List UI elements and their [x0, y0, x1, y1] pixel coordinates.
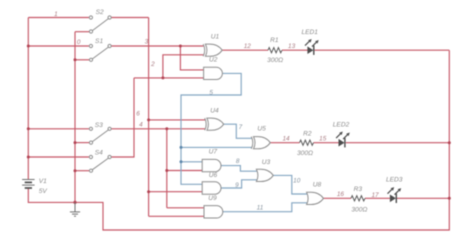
svg-text:U3: U3 [262, 159, 271, 166]
switch S1 [89, 44, 111, 61]
svg-text:V1: V1 [39, 178, 47, 185]
wire net2 branch to U6 input B [149, 191, 203, 193]
resistor R3 [351, 196, 365, 201]
svg-text:16: 16 [337, 191, 345, 198]
wire net4 vertical [166, 129, 168, 208]
gate U5 xor [251, 137, 270, 149]
wire S1 lower stub [75, 59, 90, 61]
resistor R2 [300, 140, 314, 145]
svg-text:17: 17 [371, 192, 379, 199]
wire S2 lower stub [75, 31, 89, 33]
gate U7 and [202, 159, 221, 171]
gate U1 xor [203, 44, 222, 56]
wire rail to S1 [28, 45, 89, 47]
wire net10 U3 output to U8 input A [273, 175, 307, 194]
svg-text:S3: S3 [95, 122, 103, 129]
svg-text:14: 14 [282, 136, 290, 143]
LED1 [305, 39, 319, 55]
wire net5 U2 output blue run [181, 73, 241, 184]
wire net6 branch to U1 input B [163, 55, 204, 78]
wire battery minus to ground run, bottom rail and right riser to LEDs [28, 50, 449, 230]
wire net7 U4 output to U5 input A [224, 124, 252, 138]
junction dots red [27, 45, 451, 204]
wire net2 to U9 input B [149, 215, 205, 217]
svg-text:R2: R2 [303, 131, 312, 138]
wire LED3 cathode to right riser [397, 197, 449, 199]
wire net11 U9 output to U8 input B [223, 203, 307, 212]
wire S4 lower stub [75, 170, 90, 172]
wire left rail vertical battery+ [27, 18, 29, 180]
wire net3 branch to U2 input A [180, 46, 204, 70]
wire rail to S3 [28, 128, 89, 130]
svg-text:5V: 5V [39, 188, 48, 195]
gate U4 xor [205, 118, 224, 130]
svg-text:S4: S4 [95, 149, 103, 156]
wire net3 S1 out to U1 input A [111, 45, 203, 47]
svg-text:U2: U2 [209, 57, 218, 64]
wire net4 to U9 input A [167, 207, 205, 209]
svg-text:300Ω: 300Ω [297, 150, 313, 157]
svg-text:1: 1 [54, 11, 58, 18]
svg-text:11: 11 [257, 205, 264, 212]
svg-text:R3: R3 [354, 186, 363, 193]
wire net8 U7 output to U3 input A [221, 166, 257, 172]
svg-text:6: 6 [136, 111, 140, 118]
svg-text:5: 5 [209, 89, 213, 96]
wire LED1 cathode to right riser [315, 49, 450, 51]
junction dots blue [180, 146, 183, 163]
wire top rail V+ to S2 [28, 17, 89, 19]
svg-text:LED2: LED2 [333, 122, 350, 129]
resistor R1 [268, 48, 282, 53]
wire net2 S2 out horizontal [111, 17, 148, 19]
svg-text:7: 7 [239, 124, 243, 131]
svg-text:300Ω: 300Ω [351, 207, 367, 214]
svg-text:LED3: LED3 [386, 177, 403, 184]
wire net13 R1 to LED1 [282, 49, 308, 51]
wire net9 U6 output to U3 input B [221, 180, 257, 188]
svg-text:3: 3 [145, 38, 149, 45]
wire net4 S3 out to U4 input B [111, 128, 205, 130]
wire net16 U8 output to R3 [324, 197, 352, 199]
wire net6 to U2 input B [134, 77, 204, 79]
svg-text:U6: U6 [209, 172, 218, 179]
svg-text:U1: U1 [211, 33, 220, 40]
svg-text:2: 2 [150, 61, 155, 68]
svg-text:U5: U5 [257, 125, 266, 132]
svg-text:S2: S2 [96, 9, 104, 16]
ground [70, 202, 80, 216]
wire net6 S4 out riser [111, 78, 134, 157]
svg-text:9: 9 [235, 182, 239, 189]
svg-text:S1: S1 [95, 38, 103, 45]
wire net15 R2 to LED2 [314, 142, 339, 144]
svg-text:U7: U7 [209, 149, 218, 156]
svg-text:12: 12 [244, 43, 252, 50]
wire LED2 cathode to right riser [346, 142, 450, 144]
svg-text:U9: U9 [208, 195, 217, 202]
gate U9 and [204, 206, 223, 218]
wire net14 U5 output to R2 [270, 142, 299, 144]
wire net5 branch to U5 input B [181, 146, 251, 148]
gate U3 or [256, 169, 273, 181]
svg-text:LED1: LED1 [301, 29, 318, 36]
svg-text:300Ω: 300Ω [267, 57, 283, 64]
wire net17 R3 to LED3 [365, 197, 390, 199]
gate U8 or [307, 192, 324, 204]
svg-text:8: 8 [236, 158, 240, 165]
svg-text:13: 13 [288, 43, 296, 50]
svg-text:R1: R1 [270, 37, 279, 44]
wire net2 branch to U4 input A [149, 119, 206, 121]
svg-text:10: 10 [293, 178, 301, 185]
svg-text:0: 0 [77, 39, 81, 46]
wire ground rail vertical [74, 32, 76, 203]
wire net2 long vertical [148, 18, 150, 217]
wire net12 U1 output to R1 [222, 49, 268, 51]
wire net4 branch to U7 input B [167, 170, 203, 172]
wire S3 lower stub [75, 142, 90, 144]
svg-text:4: 4 [139, 122, 143, 129]
LED3 [388, 187, 402, 203]
switch S2 [89, 16, 111, 33]
battery V1 [22, 180, 34, 189]
svg-text:U4: U4 [210, 107, 219, 114]
svg-text:15: 15 [319, 136, 327, 143]
gate U2 and [204, 67, 223, 79]
wire net5 branch to U7 input A [181, 161, 203, 163]
svg-text:U8: U8 [313, 181, 322, 188]
switch S3 [89, 127, 111, 144]
gate U6 and [202, 182, 221, 194]
switch S4 [89, 155, 111, 172]
wire rail to S4 [28, 156, 89, 158]
LED2 [336, 132, 350, 148]
